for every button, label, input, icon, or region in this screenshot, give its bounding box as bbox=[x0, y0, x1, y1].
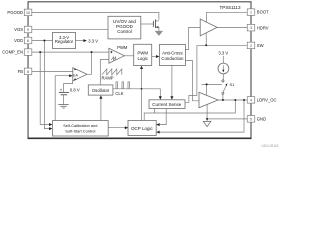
svg-text:PGOOD: PGOOD bbox=[7, 10, 23, 15]
svg-text:PWM: PWM bbox=[117, 45, 128, 50]
svg-text:COMP_EN: COMP_EN bbox=[2, 50, 23, 55]
svg-text:OCP Logic: OCP Logic bbox=[131, 126, 153, 131]
svg-text:GND: GND bbox=[257, 117, 266, 122]
svg-text:9: 9 bbox=[27, 28, 29, 32]
svg-text:Oscillator: Oscillator bbox=[92, 88, 110, 93]
svg-text:Regulator: Regulator bbox=[55, 39, 74, 44]
svg-text:SW: SW bbox=[257, 43, 264, 48]
svg-text:3.3 V: 3.3 V bbox=[218, 51, 228, 56]
svg-text:7: 7 bbox=[27, 51, 29, 55]
svg-text:FB: FB bbox=[18, 69, 24, 74]
svg-text:3.3 V: 3.3 V bbox=[88, 38, 98, 43]
svg-text:Current Sense: Current Sense bbox=[152, 102, 182, 107]
svg-text:VOS: VOS bbox=[14, 27, 23, 32]
svg-text:Control: Control bbox=[117, 29, 132, 34]
svg-text:8: 8 bbox=[27, 70, 29, 74]
svg-text:4: 4 bbox=[250, 98, 252, 102]
svg-text:10: 10 bbox=[26, 11, 30, 15]
svg-text:S1: S1 bbox=[230, 82, 236, 87]
svg-text:UDG-09115: UDG-09115 bbox=[262, 144, 279, 148]
svg-text:BOOT: BOOT bbox=[257, 10, 269, 15]
svg-text:Logic: Logic bbox=[137, 56, 148, 61]
svg-text:3: 3 bbox=[250, 26, 252, 30]
svg-text:EA: EA bbox=[73, 74, 78, 78]
svg-text:5: 5 bbox=[250, 117, 252, 121]
svg-text:Soft-Start Control: Soft-Start Control bbox=[65, 128, 95, 133]
svg-text:LDRV_OC: LDRV_OC bbox=[257, 98, 277, 103]
svg-text:Conduction: Conduction bbox=[161, 56, 184, 61]
svg-text:HDRV: HDRV bbox=[257, 25, 269, 30]
svg-text:TPS51113: TPS51113 bbox=[219, 5, 240, 10]
svg-text:CLK: CLK bbox=[115, 91, 123, 96]
svg-text:RAMP: RAMP bbox=[102, 76, 114, 81]
svg-text:1: 1 bbox=[250, 11, 252, 15]
svg-text:6: 6 bbox=[27, 39, 29, 43]
svg-text:Self-Calibration and: Self-Calibration and bbox=[63, 123, 97, 128]
svg-text:2: 2 bbox=[250, 44, 252, 48]
svg-text:0.8 V: 0.8 V bbox=[70, 87, 80, 92]
svg-text:VDD: VDD bbox=[14, 38, 23, 43]
